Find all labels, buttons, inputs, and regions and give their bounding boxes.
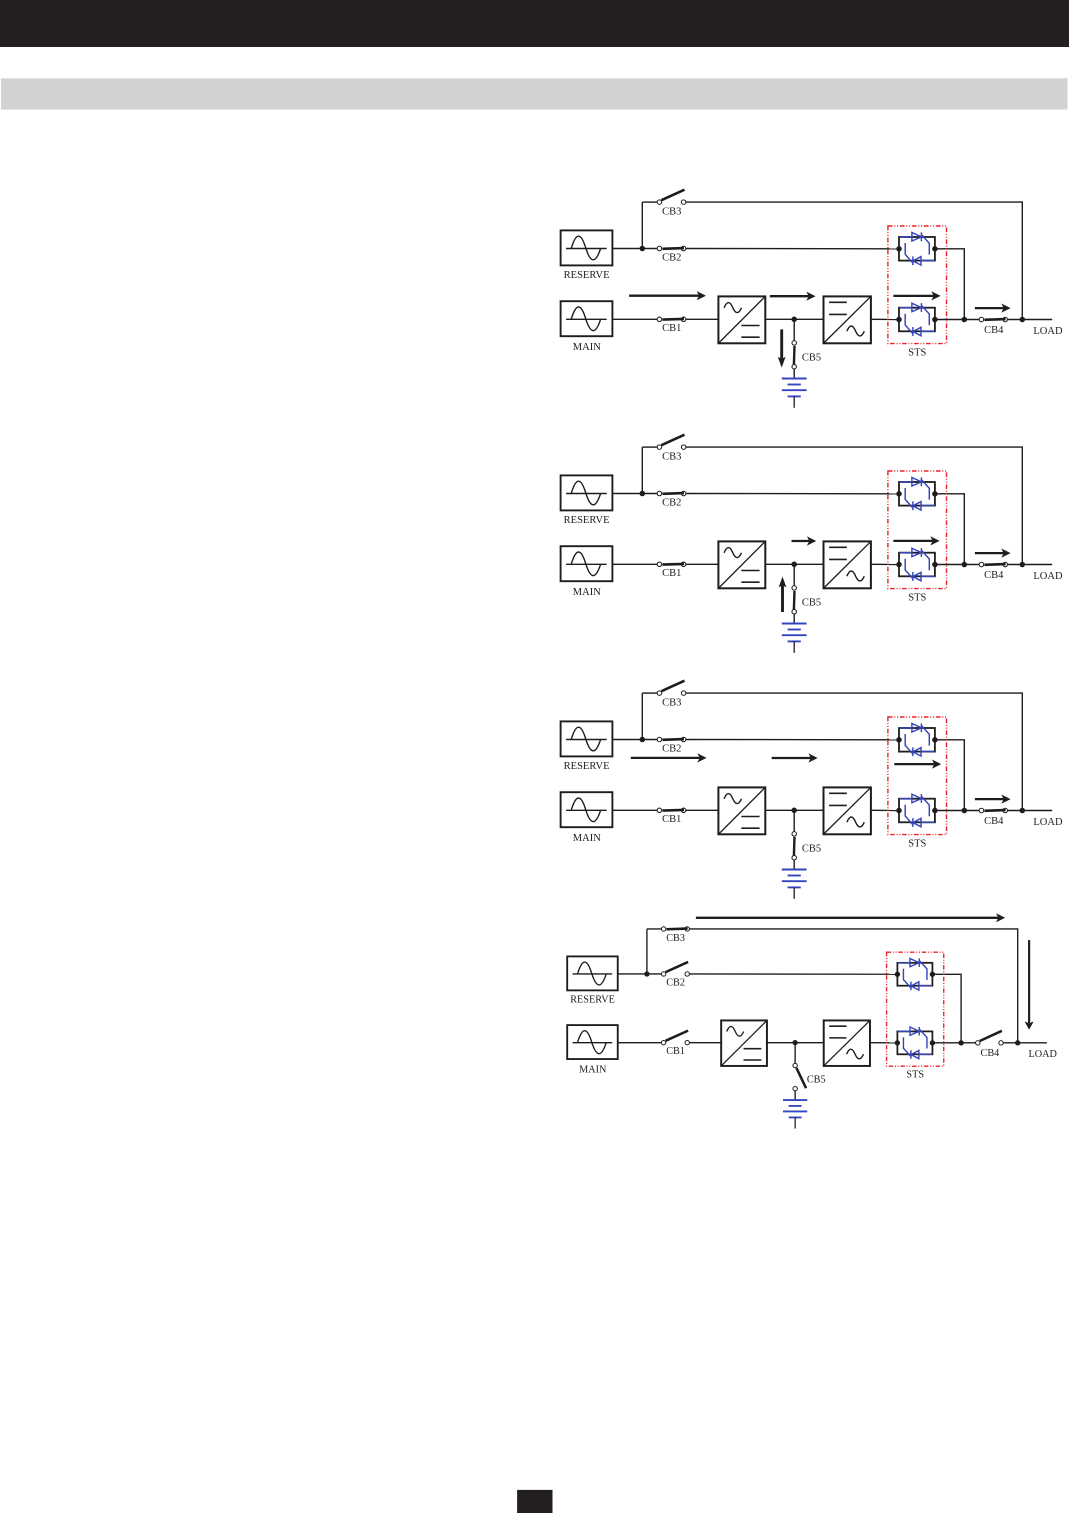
breaker CB3 (661, 927, 689, 931)
SCR module: inverter (bottom) (896, 548, 937, 581)
flow arrow: main to rectifier (629, 291, 706, 300)
svg-text:CB4: CB4 (984, 816, 1004, 827)
svg-text:LOAD: LOAD (1029, 1049, 1057, 1060)
svg-text:CB1: CB1 (666, 1046, 685, 1057)
wire: inverter to STS inverter SCR (871, 563, 899, 565)
node: load junction (1020, 808, 1026, 814)
battery (782, 870, 807, 899)
svg-text:CB4: CB4 (984, 570, 1004, 581)
rectifier (AC/DC) (721, 1020, 767, 1065)
SCR module: bypass (top) (896, 477, 937, 510)
node: DC bus / battery junction (791, 808, 797, 814)
breaker CB1 (657, 317, 686, 322)
node: reserve/bypass junction (644, 971, 649, 976)
SCR module: bypass (top) (895, 958, 935, 990)
wire: STS bypass output drop (935, 494, 964, 565)
svg-text:RESERVE: RESERVE (570, 995, 615, 1006)
wire: CB4 to load (1007, 319, 1052, 321)
svg-text:LOAD: LOAD (1033, 817, 1063, 828)
section title band (1, 78, 1068, 109)
svg-text:CB5: CB5 (802, 844, 821, 855)
node: STS output junction (962, 808, 968, 814)
breaker CB5 (793, 1063, 806, 1090)
STS enclosure (static transfer switch) (887, 952, 944, 1066)
wire: riser reserve node to bypass (641, 202, 643, 248)
breaker CB2 (657, 737, 686, 742)
wire: CB4 to load (1007, 810, 1052, 812)
wire: reserve source to CB2 (612, 493, 657, 495)
svg-text:MAIN: MAIN (573, 833, 601, 844)
flow arrow: rectifier to inverter (770, 292, 816, 301)
source RESERVE (561, 230, 613, 265)
STS enclosure (static transfer switch) (888, 717, 947, 835)
node: DC bus / battery junction (791, 562, 797, 568)
flow arrow: bypass down to load (1025, 940, 1034, 1030)
SCR module: bypass (top) (896, 723, 937, 756)
breaker CB2 (661, 962, 689, 976)
page number block (517, 1490, 552, 1513)
wire: main source to CB1 (618, 1042, 662, 1044)
wire: battery branch upper (793, 810, 795, 831)
node: DC bus / battery junction (792, 1040, 797, 1045)
flow arrow: DC bus to inverter (792, 536, 817, 545)
wire: battery branch upper (793, 319, 795, 340)
flow arrow: through STS inverter SCR (893, 291, 940, 300)
svg-text:LOAD: LOAD (1033, 571, 1063, 582)
rectifier (AC/DC) (718, 296, 765, 343)
wire: riser reserve node to bypass (646, 929, 648, 974)
svg-text:CB1: CB1 (662, 814, 681, 825)
source MAIN (561, 301, 613, 336)
node: load junction (1020, 562, 1026, 568)
wire: battery branch upper (793, 564, 795, 585)
svg-text:CB5: CB5 (802, 353, 821, 364)
flow arrow: reserve to STS (772, 753, 818, 762)
svg-text:STS: STS (908, 838, 926, 849)
source RESERVE (567, 956, 618, 990)
wire: CB1 to rectifier (686, 809, 719, 811)
wire: inverter to STS inverter SCR (870, 1042, 897, 1044)
wire: STS bypass output drop (932, 974, 961, 1042)
wire: inverter to STS inverter SCR (871, 809, 899, 811)
breaker CB1 (661, 1031, 689, 1045)
svg-text:STS: STS (908, 347, 926, 358)
inverter (DC/AC) (824, 296, 871, 343)
svg-text:CB1: CB1 (662, 323, 681, 334)
svg-text:CB2: CB2 (666, 978, 685, 989)
breaker CB2 (657, 491, 686, 496)
diagram 1: normal mode (561, 190, 1063, 408)
wire: battery branch lower (794, 1091, 796, 1100)
svg-text:RESERVE: RESERVE (564, 515, 610, 526)
source RESERVE (561, 721, 613, 756)
node: reserve/bypass junction (640, 737, 646, 743)
flow arrow: battery discharging (up) (779, 577, 787, 612)
wire: riser reserve node to bypass (641, 693, 643, 739)
wire: CB1 to rectifier (689, 1042, 721, 1044)
svg-text:CB3: CB3 (666, 933, 685, 944)
wire: riser reserve node to bypass (641, 447, 643, 493)
STS enclosure (static transfer switch) (888, 226, 947, 344)
wire: main source to CB1 (612, 809, 657, 811)
wire: bypass top line (642, 446, 657, 448)
wire: inverter to STS inverter SCR (871, 318, 899, 320)
flow arrow: through STS inverter SCR (893, 536, 939, 545)
header bar (0, 0, 1069, 47)
svg-text:CB3: CB3 (662, 206, 681, 217)
diagram 4: maintenance bypass mode (567, 913, 1057, 1128)
svg-text:CB2: CB2 (662, 498, 681, 509)
rectifier (AC/DC) (718, 541, 765, 588)
wire: reserve source to CB2 (618, 973, 662, 975)
flow arrow: battery charging (down) (778, 329, 786, 367)
breaker CB5 (792, 341, 797, 369)
breaker CB3 (657, 435, 686, 450)
source MAIN (561, 792, 613, 827)
source MAIN (561, 546, 613, 581)
wire: main source to CB1 (612, 563, 657, 565)
wire: main source to CB1 (612, 318, 657, 320)
svg-text:LOAD: LOAD (1033, 326, 1063, 337)
breaker CB1 (657, 808, 686, 813)
wire: STS output to CB4 (935, 810, 979, 812)
svg-text:STS: STS (906, 1070, 924, 1081)
wire: CB2 to STS bypass SCR (686, 493, 899, 495)
wire: battery branch lower (793, 369, 795, 379)
svg-text:CB1: CB1 (662, 568, 681, 579)
breaker CB4 (976, 1031, 1004, 1045)
wire: STS bypass output drop (935, 249, 964, 319)
diagram 3: reserve mode (561, 681, 1063, 899)
breaker CB5 (792, 586, 797, 614)
node: load junction (1020, 317, 1026, 323)
wire: STS output to CB4 (932, 1042, 975, 1044)
breaker CB4 (979, 808, 1007, 813)
breaker CB4 (979, 562, 1007, 567)
battery (783, 1100, 807, 1128)
wire: CB4 to load (1007, 564, 1052, 566)
source MAIN (567, 1025, 618, 1059)
svg-text:MAIN: MAIN (573, 587, 601, 598)
wire: bypass top line (642, 201, 657, 203)
source RESERVE (561, 475, 613, 510)
SCR module: inverter (bottom) (896, 303, 937, 336)
svg-text:CB3: CB3 (662, 697, 681, 708)
node: STS output junction (962, 562, 968, 568)
wire: CB1 to rectifier (686, 318, 719, 320)
svg-text:CB2: CB2 (662, 744, 681, 755)
flow arrow: to load (975, 304, 1011, 313)
wire: CB2 to STS bypass SCR (689, 973, 897, 975)
inverter (DC/AC) (824, 787, 871, 834)
battery (782, 624, 807, 653)
flow arrow: through STS bypass SCR (894, 760, 941, 769)
wire: battery branch upper (794, 1043, 796, 1064)
breaker CB2 (657, 246, 686, 251)
rectifier (AC/DC) (718, 787, 765, 834)
svg-text:RESERVE: RESERVE (564, 270, 610, 281)
wire: rectifier to inverter (DC bus) (767, 1042, 824, 1044)
node: reserve/bypass junction (640, 246, 646, 252)
svg-text:CB4: CB4 (984, 325, 1004, 336)
flow arrow: maintenance bypass (top) (696, 913, 1005, 922)
inverter (DC/AC) (824, 1020, 870, 1065)
svg-text:CB5: CB5 (802, 598, 821, 609)
SCR module: inverter (bottom) (895, 1027, 935, 1059)
wire: CB4 to load (1003, 1042, 1047, 1044)
wire: rectifier to inverter (DC bus) (765, 318, 823, 320)
breaker CB4 (979, 317, 1007, 322)
node: STS output junction (962, 317, 968, 323)
svg-text:CB4: CB4 (981, 1048, 1000, 1059)
flow arrow: to load (975, 795, 1011, 804)
wire: CB1 to rectifier (686, 563, 719, 565)
flow arrow: reserve input (631, 753, 707, 762)
wire: CB2 to STS bypass SCR (686, 739, 899, 741)
inverter (DC/AC) (824, 541, 871, 588)
wire: reserve source to CB2 (612, 739, 657, 741)
wire: battery branch lower (793, 614, 795, 624)
svg-text:CB2: CB2 (662, 253, 681, 264)
wire: rectifier to inverter (DC bus) (765, 809, 823, 811)
node: reserve/bypass junction (640, 491, 646, 497)
node: DC bus / battery junction (791, 317, 797, 323)
wire: STS bypass output drop (935, 740, 964, 811)
wire: battery branch lower (793, 860, 795, 870)
wire: STS output to CB4 (935, 319, 979, 321)
battery (782, 379, 807, 408)
wire: CB2 to STS bypass SCR (686, 248, 899, 250)
wire: STS output to CB4 (935, 564, 979, 566)
wire: reserve source to CB2 (612, 248, 657, 250)
svg-text:CB5: CB5 (807, 1075, 826, 1086)
diagram 2: battery mode (561, 435, 1063, 653)
flow arrow: to load (975, 549, 1011, 558)
node: load junction (1015, 1040, 1020, 1045)
wire: bypass top line (642, 692, 657, 694)
svg-text:MAIN: MAIN (579, 1064, 607, 1075)
SCR module: bypass (top) (896, 232, 937, 265)
svg-text:STS: STS (908, 592, 926, 603)
wire: bypass top line (647, 928, 661, 930)
wire: rectifier to inverter (DC bus) (765, 563, 823, 565)
breaker CB1 (657, 562, 686, 567)
svg-text:RESERVE: RESERVE (564, 761, 610, 772)
STS enclosure (static transfer switch) (888, 471, 947, 589)
svg-text:CB3: CB3 (662, 451, 681, 462)
breaker CB5 (792, 832, 797, 860)
svg-text:MAIN: MAIN (573, 342, 601, 353)
breaker CB3 (657, 681, 686, 696)
SCR module: inverter (bottom) (896, 794, 937, 827)
breaker CB3 (657, 190, 686, 205)
node: STS output junction (958, 1040, 963, 1045)
